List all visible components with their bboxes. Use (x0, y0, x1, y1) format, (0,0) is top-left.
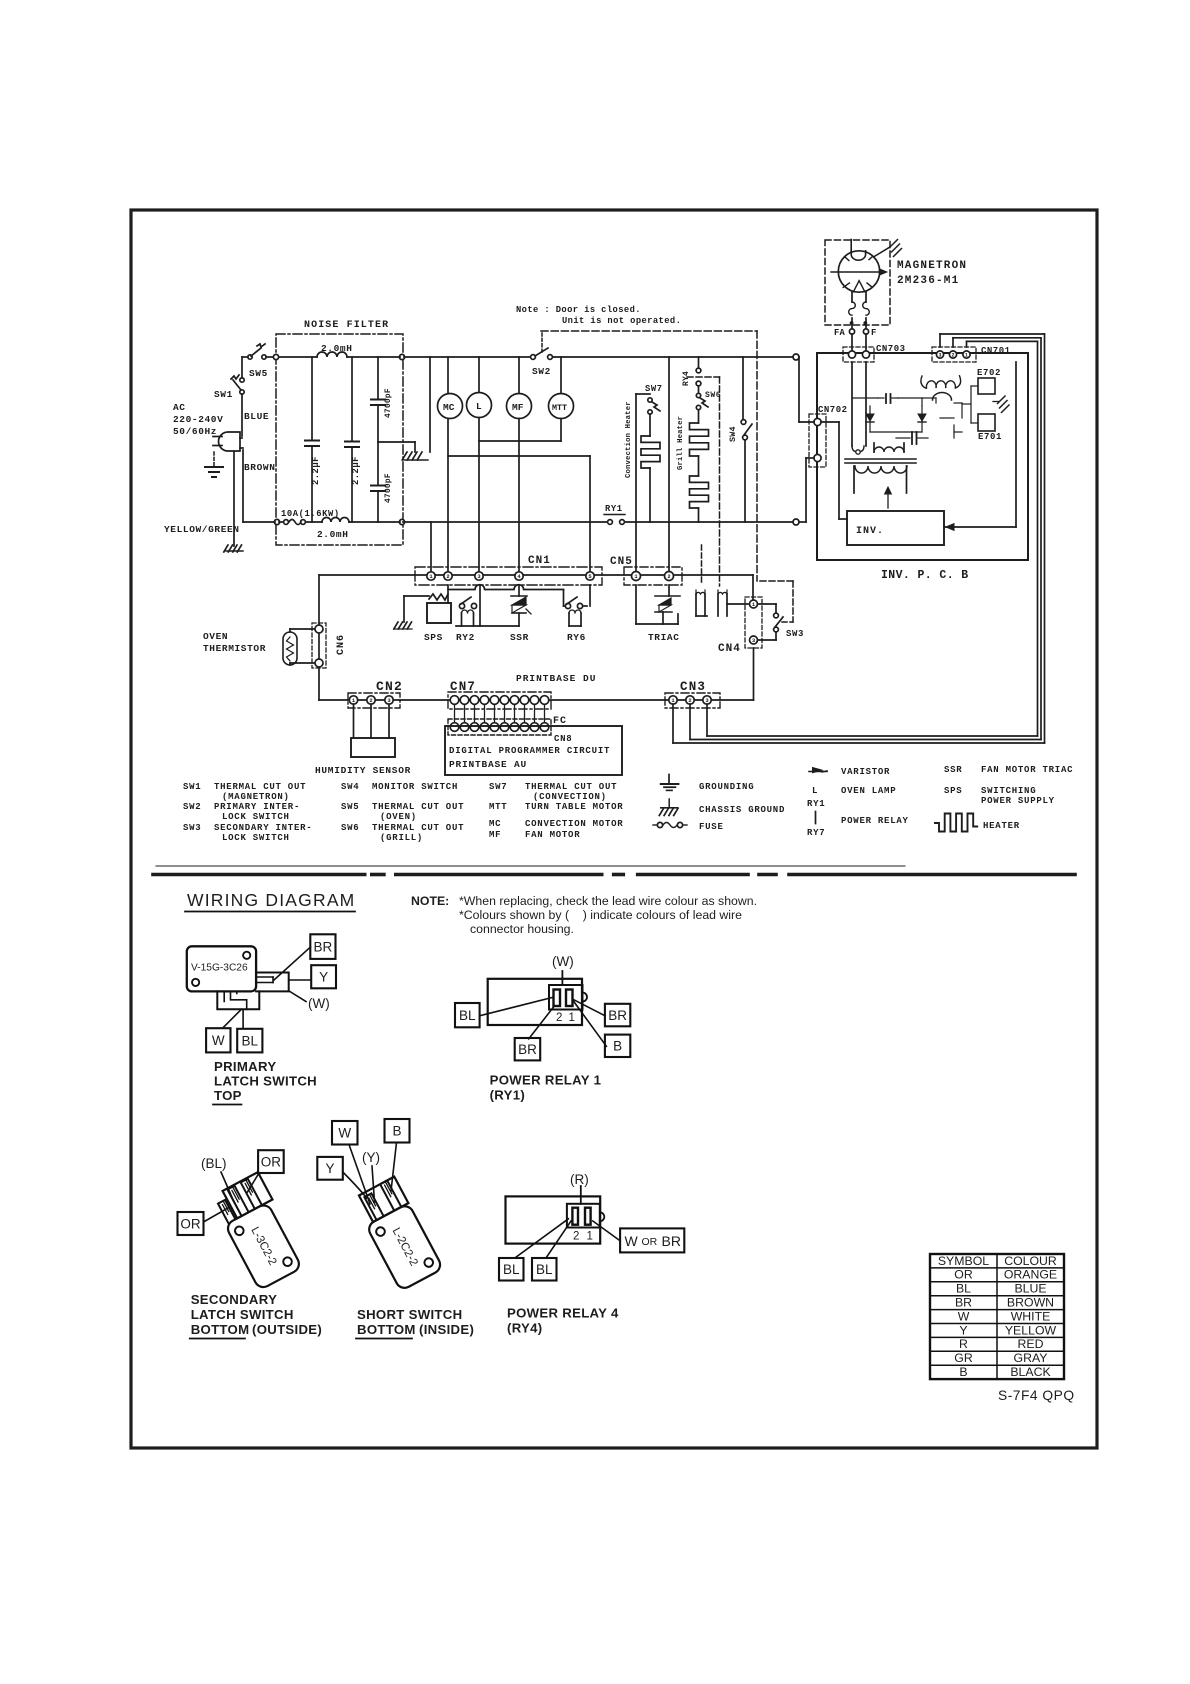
svg-text:Unit is not operated.: Unit is not operated. (562, 316, 681, 326)
svg-text:SYMBOL: SYMBOL (938, 1254, 989, 1268)
svg-text:(CONVECTION): (CONVECTION) (533, 792, 607, 802)
svg-text:PRINTBASE AU: PRINTBASE AU (449, 759, 527, 770)
connector CN8 (448, 719, 551, 735)
svg-text:WHITE: WHITE (1011, 1309, 1051, 1323)
svg-text:SW4: SW4 (728, 426, 738, 442)
svg-text:CHASSIS GROUND: CHASSIS GROUND (699, 805, 785, 815)
svg-text:RY2: RY2 (456, 632, 475, 643)
svg-text:OR: OR (180, 1216, 201, 1231)
svg-text:MC: MC (443, 402, 455, 413)
svg-text:L-2C2-2: L-2C2-2 (390, 1226, 420, 1268)
BR label bottom (515, 1038, 541, 1060)
svg-text:2.0mH: 2.0mH (321, 343, 353, 354)
legend varistor symbol (809, 771, 827, 773)
svg-text:50/60Hz: 50/60Hz (173, 426, 217, 437)
svg-text:Y: Y (319, 970, 328, 985)
INV block (847, 511, 944, 545)
svg-text:THERMAL CUT OUT: THERMAL CUT OUT (214, 782, 306, 792)
svg-text:SW6: SW6 (341, 823, 359, 833)
symbol colour table (930, 1254, 1064, 1379)
svg-text:INV.: INV. (856, 526, 884, 537)
svg-text:E702: E702 (977, 368, 1001, 378)
svg-text:BR: BR (955, 1296, 972, 1310)
motor MC (438, 394, 463, 419)
OR label top (258, 1150, 284, 1173)
svg-text:CN5: CN5 (610, 556, 633, 568)
svg-text:THERMAL CUT OUT: THERMAL CUT OUT (372, 802, 464, 812)
svg-text:SW1: SW1 (214, 389, 233, 400)
svg-text:VARISTOR: VARISTOR (841, 767, 890, 777)
svg-text:MF: MF (512, 402, 524, 413)
humidity sensor (351, 738, 395, 757)
svg-text:BL: BL (459, 1008, 476, 1023)
svg-text:MTT: MTT (552, 403, 567, 413)
svg-text:SECONDARY: SECONDARY (191, 1292, 277, 1307)
svg-text:(W): (W) (552, 954, 574, 969)
W label (332, 1121, 358, 1145)
svg-text:CONVECTION MOTOR: CONVECTION MOTOR (525, 819, 623, 829)
svg-text:2: 2 (667, 573, 670, 580)
svg-text:CN4: CN4 (718, 643, 741, 655)
svg-text:SW7: SW7 (645, 384, 663, 394)
svg-text:*When replacing, check the lea: *When replacing, check the lead wire col… (459, 894, 757, 908)
power relay 1 (RY1) body (488, 979, 582, 1025)
svg-text:SW2: SW2 (532, 366, 551, 377)
svg-text:PRIMARY INTER-: PRIMARY INTER- (214, 802, 300, 812)
svg-text:2: 2 (446, 573, 449, 580)
BL labels (499, 1258, 524, 1281)
flat cable FC (454, 705, 456, 723)
wires CN701 to right edge loop (939, 334, 941, 347)
svg-text:2: 2 (556, 1012, 562, 1024)
svg-text:ORANGE: ORANGE (1004, 1268, 1057, 1282)
svg-text:RY6: RY6 (567, 632, 586, 643)
wire lamp bottoms (696, 615, 707, 617)
section divider (156, 865, 905, 867)
svg-text:SW3: SW3 (786, 629, 804, 639)
svg-text:Y: Y (959, 1323, 967, 1337)
svg-text:CN3: CN3 (680, 680, 706, 694)
capacitor 2.2uF #1 (311, 357, 313, 439)
filament leads inside PCB (851, 362, 853, 446)
wire conv heater left leg (635, 394, 637, 573)
svg-text:FA: FA (834, 328, 845, 338)
svg-text:B: B (959, 1365, 967, 1379)
wire RY2 vertical (479, 585, 481, 626)
svg-text:2.0mH: 2.0mH (317, 529, 349, 540)
svg-text:HEATER: HEATER (983, 821, 1020, 831)
svg-text:TOP: TOP (214, 1088, 242, 1103)
svg-text:NOISE FILTER: NOISE FILTER (304, 320, 389, 331)
svg-text:CN1: CN1 (528, 555, 551, 567)
svg-text:BL: BL (503, 1262, 520, 1277)
svg-text:(RY4): (RY4) (507, 1321, 542, 1336)
wire top bus into CN702 (798, 357, 800, 422)
W OR BR label (620, 1228, 684, 1252)
magnetron ground lead (874, 247, 890, 257)
inverter PCB box (817, 353, 1028, 560)
svg-text:V-15G-3C26: V-15G-3C26 (191, 963, 248, 974)
svg-text:THERMAL CUT OUT: THERMAL CUT OUT (372, 823, 464, 833)
svg-text:F: F (871, 328, 876, 338)
svg-text:MAGNETRON: MAGNETRON (897, 260, 967, 272)
legend heater symbol (935, 814, 977, 832)
diode D1 (869, 406, 871, 432)
legend chassis ground symbol (668, 799, 670, 808)
svg-text:FUSE: FUSE (699, 822, 724, 832)
svg-text:BL: BL (956, 1282, 971, 1296)
rail CN1 level (319, 574, 753, 576)
wire to relay row (448, 585, 564, 590)
HV transformer core (845, 458, 916, 460)
svg-text:SWITCHING: SWITCHING (981, 786, 1036, 796)
svg-text:MF: MF (489, 830, 501, 840)
svg-text:LOCK SWITCH: LOCK SWITCH (222, 833, 290, 843)
svg-text:GR: GR (954, 1351, 973, 1365)
svg-text:OR: OR (642, 1236, 658, 1248)
svg-text:SSR: SSR (944, 765, 962, 775)
inner wiring (852, 397, 878, 399)
svg-text:OR: OR (261, 1154, 282, 1169)
page border frame (131, 210, 1097, 1448)
wire CN1 pin1 drop (430, 522, 432, 573)
AC plug (219, 432, 241, 451)
node terminals on filter edges (273, 354, 278, 359)
wire CN5 pin2 drop (668, 357, 670, 573)
wire neutral bus (403, 521, 608, 523)
svg-text:NOTE:: NOTE: (411, 894, 449, 908)
svg-text:YELLOW/GREEN: YELLOW/GREEN (164, 524, 240, 535)
svg-text:LATCH SWITCH: LATCH SWITCH (191, 1307, 294, 1322)
svg-text:10A(1.6KW): 10A(1.6KW) (281, 509, 340, 519)
svg-text:YELLOW: YELLOW (1005, 1323, 1057, 1337)
svg-text:BLUE: BLUE (1014, 1282, 1046, 1296)
svg-text:S-7F4 QPQ: S-7F4 QPQ (998, 1388, 1075, 1403)
svg-text:MC: MC (489, 819, 501, 829)
svg-text:2: 2 (951, 353, 954, 359)
wire cap midpoint to chassis ground (378, 441, 415, 443)
svg-text:2: 2 (573, 1231, 579, 1243)
chassis ground leg (403, 596, 405, 622)
svg-text:THERMISTOR: THERMISTOR (203, 643, 266, 654)
wire top bus (404, 356, 531, 358)
wire neutral into CN702 (799, 521, 806, 523)
digital programmer circuit box (445, 726, 622, 775)
svg-text:POWER RELAY: POWER RELAY (841, 816, 909, 826)
svg-text:CN2: CN2 (376, 679, 403, 694)
svg-text:BOTTOM: BOTTOM (357, 1322, 416, 1337)
svg-text:PRIMARY: PRIMARY (214, 1059, 276, 1074)
svg-text:(RY1): (RY1) (490, 1088, 525, 1103)
dashed door group box (541, 330, 757, 332)
capacitor 4700pF #2 (371, 485, 385, 487)
svg-text:TURN TABLE MOTOR: TURN TABLE MOTOR (525, 802, 623, 812)
relay contact RY4 (698, 357, 700, 368)
svg-text:CN701: CN701 (981, 346, 1011, 356)
svg-text:2.2μF: 2.2μF (311, 456, 321, 485)
svg-text:LATCH SWITCH: LATCH SWITCH (214, 1074, 317, 1089)
svg-text:SW3: SW3 (183, 823, 201, 833)
secondary latch switch body L-3C2-2 (210, 1172, 307, 1290)
svg-text:RED: RED (1018, 1337, 1044, 1351)
svg-text:RY1: RY1 (605, 504, 623, 514)
svg-text:(BL): (BL) (201, 1156, 227, 1171)
svg-text:SW2: SW2 (183, 802, 201, 812)
svg-text:Convection Heater: Convection Heater (625, 401, 633, 478)
svg-text:FAN MOTOR: FAN MOTOR (525, 830, 580, 840)
svg-text:LOCK SWITCH: LOCK SWITCH (222, 812, 290, 822)
primary latch bottom tabs (217, 991, 259, 1009)
snubber cap (896, 437, 910, 439)
leader to BR (274, 947, 311, 980)
svg-text:BL: BL (536, 1262, 553, 1277)
svg-text:BR: BR (608, 1008, 627, 1023)
svg-text:BROWN: BROWN (1007, 1296, 1054, 1310)
svg-text:L: L (812, 786, 818, 796)
svg-text:INV. P. C. B: INV. P. C. B (881, 569, 969, 582)
svg-text:RY4: RY4 (682, 371, 691, 386)
BR label right (605, 1004, 630, 1027)
leader to Y (289, 979, 311, 981)
svg-text:CN8: CN8 (554, 734, 572, 744)
rail CN2-CN7-CN3 (319, 699, 754, 701)
svg-text:BR: BR (314, 939, 333, 954)
svg-text:CN703: CN703 (876, 344, 906, 354)
svg-text:Y: Y (326, 1161, 335, 1176)
svg-text:SW4: SW4 (341, 782, 359, 792)
svg-text:(OUTSIDE): (OUTSIDE) (252, 1322, 322, 1337)
wire motor junctions (479, 440, 561, 442)
svg-text:3: 3 (938, 353, 941, 359)
wire CN4 to CN3 (753, 648, 755, 700)
svg-text:4700pF: 4700pF (385, 388, 393, 418)
svg-text:B: B (392, 1124, 401, 1139)
svg-text:AC: AC (173, 402, 186, 413)
drive transformer top (921, 376, 926, 388)
svg-text:OVEN LAMP: OVEN LAMP (841, 786, 896, 796)
BL label (455, 1003, 480, 1027)
monitor switch SW4 (742, 357, 744, 420)
svg-text:HUMIDITY SENSOR: HUMIDITY SENSOR (315, 765, 411, 776)
svg-text:(R): (R) (570, 1172, 589, 1187)
filament leads with chokes (851, 292, 853, 302)
svg-text:BR: BR (518, 1042, 537, 1057)
svg-text:GROUNDING: GROUNDING (699, 782, 754, 792)
svg-text:BROWN: BROWN (244, 462, 276, 473)
power relay 4 (RY4) body (506, 1196, 601, 1243)
svg-text:SPS: SPS (944, 786, 962, 796)
svg-text:BLUE: BLUE (244, 411, 269, 422)
legend fuse symbol (653, 824, 657, 826)
svg-text:Grill Heater: Grill Heater (677, 416, 685, 470)
svg-text:connector housing.: connector housing. (470, 922, 574, 936)
svg-text:MTT: MTT (489, 802, 507, 812)
arrow into coil (887, 492, 889, 508)
svg-text:SHORT SWITCH: SHORT SWITCH (357, 1307, 462, 1322)
svg-text:220-240V: 220-240V (173, 414, 223, 425)
svg-text:BOTTOM: BOTTOM (191, 1322, 250, 1337)
svg-text:4700pF: 4700pF (385, 473, 393, 503)
varistor zigzag (429, 594, 448, 600)
HV transformer secondary coil (855, 466, 907, 473)
short switch body L-2C2-2 (352, 1177, 443, 1291)
legend grounding symbol (668, 775, 670, 784)
svg-text:POWER RELAY 4: POWER RELAY 4 (507, 1306, 619, 1321)
svg-text:POWER RELAY 1: POWER RELAY 1 (490, 1073, 602, 1088)
svg-text:CN6: CN6 (336, 634, 347, 655)
svg-text:OR: OR (954, 1268, 973, 1282)
svg-text:BLACK: BLACK (1010, 1365, 1051, 1379)
B label (385, 1119, 410, 1143)
wire blue vertical (241, 357, 243, 378)
svg-text:GRAY: GRAY (1014, 1351, 1048, 1365)
svg-text:FAN MOTOR TRIAC: FAN MOTOR TRIAC (981, 765, 1073, 775)
svg-text:2M236-M1: 2M236-M1 (897, 275, 959, 287)
svg-text:(Y): (Y) (362, 1150, 380, 1165)
pcb ground (993, 401, 999, 403)
svg-text:SW7: SW7 (489, 782, 507, 792)
svg-text:W: W (338, 1126, 351, 1141)
node terminal right end of neutral bus (793, 519, 799, 525)
svg-text:SW5: SW5 (249, 368, 268, 379)
svg-text:L-3C2-2: L-3C2-2 (248, 1225, 278, 1267)
svg-text:(W): (W) (308, 996, 330, 1011)
svg-text:(MAGNETRON): (MAGNETRON) (222, 792, 290, 802)
OR label left (178, 1212, 204, 1235)
leader to (W) (290, 991, 306, 1001)
svg-text:1: 1 (569, 1012, 575, 1024)
fan motor MF (507, 394, 532, 419)
svg-text:2.2μF: 2.2μF (351, 456, 361, 485)
coupling cap (878, 397, 884, 399)
svg-text:(INSIDE): (INSIDE) (419, 1322, 474, 1337)
diode D2 (921, 406, 923, 432)
svg-text:W: W (625, 1233, 639, 1249)
svg-text:*Colours shown by ( ) indic: *Colours shown by ( ) indicate colours o… (459, 908, 742, 922)
primary latch terminals right (256, 973, 289, 992)
svg-text:RY7: RY7 (807, 828, 825, 838)
wire CN702 to INV (821, 421, 839, 423)
svg-text:E701: E701 (978, 432, 1002, 442)
svg-text:COLOUR: COLOUR (1004, 1254, 1057, 1268)
svg-text:BR: BR (662, 1233, 681, 1249)
svg-text:SW5: SW5 (341, 802, 359, 812)
oven lamp coils at CN5 (695, 594, 697, 616)
svg-text:RY1: RY1 (807, 799, 825, 809)
svg-text:R: R (959, 1337, 968, 1351)
svg-text:TRIAC: TRIAC (648, 632, 680, 643)
svg-text:PRINTBASE DU: PRINTBASE DU (516, 673, 596, 684)
svg-text:SSR: SSR (510, 632, 529, 643)
svg-text:W: W (212, 1033, 225, 1048)
svg-text:W: W (958, 1309, 970, 1323)
svg-text:THERMAL CUT OUT: THERMAL CUT OUT (525, 782, 617, 792)
svg-text:DIGITAL PROGRAMMER CIRCUIT: DIGITAL PROGRAMMER CIRCUIT (449, 746, 610, 756)
svg-text:BL: BL (242, 1033, 259, 1048)
capacitor 2.2uF #2 (351, 357, 353, 440)
svg-text:SW1: SW1 (183, 782, 201, 792)
resonant choke (933, 393, 952, 400)
wire top bus to noise filter (242, 356, 248, 358)
svg-text:POWER SUPPLY: POWER SUPPLY (981, 796, 1055, 806)
wire top bus drop to ground x430 (429, 357, 431, 452)
svg-text:WIRING DIAGRAM: WIRING DIAGRAM (187, 890, 355, 910)
primary small coils (874, 447, 904, 452)
leaders to W and BL (224, 1009, 242, 1027)
svg-text:L: L (476, 401, 482, 412)
svg-text:MONITOR SWITCH: MONITOR SWITCH (372, 782, 458, 792)
svg-text:1: 1 (965, 353, 968, 359)
svg-text:(GRILL): (GRILL) (380, 833, 423, 843)
turntable motor MTT (549, 394, 574, 419)
B label (605, 1035, 630, 1057)
svg-text:SW6: SW6 (705, 391, 721, 400)
Y label (317, 1157, 343, 1180)
svg-text:SECONDARY INTER-: SECONDARY INTER- (214, 823, 312, 833)
node terminal right end of top bus (793, 354, 799, 360)
svg-text:1: 1 (587, 1231, 593, 1243)
svg-text:(OVEN): (OVEN) (380, 812, 417, 822)
earth ground below plug (213, 452, 215, 466)
svg-text:SPS: SPS (424, 632, 443, 643)
svg-text:OVEN: OVEN (203, 631, 228, 642)
oven lamp L (467, 393, 492, 418)
primary latch switch body V-15G-3C26 (187, 946, 256, 991)
svg-text:Note : Door is closed.: Note : Door is closed. (516, 305, 641, 315)
svg-text:B: B (613, 1039, 622, 1054)
wires CN3 to inverter loop (672, 704, 674, 743)
capacitor 4700pF #1 (377, 357, 379, 398)
